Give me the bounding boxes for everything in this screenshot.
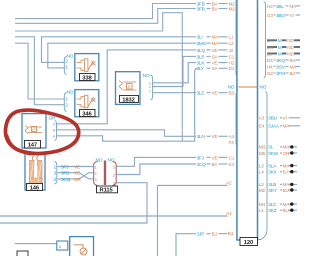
wire 3MG row from 338 pin1 bbox=[48, 43, 196, 68]
component 147 sensor bbox=[22, 114, 46, 148]
svg-text:1: 1 bbox=[113, 165, 115, 169]
svg-text:3LB: 3LB bbox=[268, 182, 276, 188]
svg-text:R115: R115 bbox=[100, 188, 114, 194]
label 146 bbox=[27, 184, 43, 192]
svg-text:3LY: 3LY bbox=[197, 66, 205, 72]
label 147 bbox=[25, 141, 41, 149]
svg-text:BJ: BJ bbox=[212, 232, 218, 238]
svg-text:3JP: 3JP bbox=[197, 232, 205, 238]
bottom pump component bbox=[70, 237, 94, 256]
svg-text:NO: NO bbox=[108, 158, 115, 164]
svg-text:C1: C1 bbox=[229, 54, 235, 60]
svg-text:M2: M2 bbox=[259, 188, 266, 194]
svg-text:MA: MA bbox=[283, 202, 291, 208]
svg-text:VI: VI bbox=[283, 116, 287, 122]
wire bottom-left to pump box bbox=[15, 243, 57, 245]
svg-text:L1: L1 bbox=[259, 208, 264, 214]
wire line5 to 346 pin1 bbox=[15, 43, 65, 99]
svg-text:L2: L2 bbox=[259, 182, 264, 188]
svg-text:VE: VE bbox=[212, 155, 218, 161]
svg-text:L4: L4 bbox=[267, 38, 272, 44]
svg-text:3LQ: 3LQ bbox=[197, 48, 206, 54]
label 338 bbox=[80, 74, 96, 82]
svg-text:A2: A2 bbox=[226, 181, 232, 187]
wire 3LI row from 338 pin2 bbox=[42, 37, 197, 63]
svg-text:3CQ: 3CQ bbox=[197, 162, 207, 168]
svg-text:3LP: 3LP bbox=[197, 54, 205, 60]
wire G2 3FM-BJ bbox=[274, 72, 276, 74]
wire 3LP row from 1832 bbox=[153, 56, 196, 86]
svg-text:NO: NO bbox=[260, 84, 267, 90]
svg-text:L3: L3 bbox=[259, 163, 264, 169]
wire H3 3BL-NA bbox=[274, 5, 276, 7]
svg-text:VE: VE bbox=[212, 48, 218, 54]
svg-text:BU: BU bbox=[283, 188, 290, 194]
wire 3LQ row from 147 pin C bbox=[57, 50, 196, 124]
svg-text:H3: H3 bbox=[267, 4, 273, 10]
svg-text:M2: M2 bbox=[229, 6, 236, 12]
svg-text:NO: NO bbox=[228, 84, 235, 90]
component 338 relay bbox=[75, 54, 99, 81]
svg-text:3BU: 3BU bbox=[268, 116, 277, 122]
svg-text:3LZ: 3LZ bbox=[197, 91, 205, 97]
svg-text:M: M bbox=[278, 45, 282, 51]
internal link line in 120 bbox=[238, 86, 256, 88]
svg-text:346: 346 bbox=[82, 111, 92, 117]
bracket rail left of 120 upper bbox=[236, 0, 238, 78]
svg-text:3FB: 3FB bbox=[197, 6, 205, 12]
wire M3 3L-MA bbox=[266, 146, 269, 148]
svg-text:3GV: 3GV bbox=[276, 64, 286, 70]
svg-text:3: 3 bbox=[95, 178, 97, 182]
connector bracket of 1832 bbox=[151, 75, 153, 100]
svg-text:A1: A1 bbox=[226, 211, 232, 217]
svg-text:A3: A3 bbox=[259, 116, 265, 122]
label box bottom-left (cut) bbox=[17, 251, 28, 256]
svg-text:3KZ: 3KZ bbox=[268, 208, 276, 214]
svg-text:146: 146 bbox=[30, 185, 40, 191]
wire line4 to 346 pin2 bbox=[15, 37, 65, 105]
svg-text:2: 2 bbox=[95, 172, 97, 176]
wire 3FJ from 146 pin1 to R115 bbox=[58, 166, 94, 168]
svg-text:VE: VE bbox=[212, 61, 218, 67]
svg-text:338: 338 bbox=[82, 75, 92, 81]
wire 3LZ row from 1832 bbox=[153, 92, 196, 94]
component 1832 pressure sensor bbox=[116, 72, 141, 105]
svg-text:H4: H4 bbox=[267, 64, 273, 70]
connector bracket of 338 bbox=[64, 57, 66, 75]
svg-text:VE: VE bbox=[74, 171, 80, 177]
svg-text:J2: J2 bbox=[229, 48, 234, 54]
svg-text:D3: D3 bbox=[267, 58, 273, 64]
svg-text:M: M bbox=[278, 51, 282, 57]
wire 3CQ from 146 pin2, crossing bbox=[58, 173, 94, 179]
wire H4 3GV-MA bbox=[274, 66, 276, 68]
wire A2 row and down bbox=[158, 185, 228, 256]
svg-text:MA: MA bbox=[283, 163, 291, 169]
wire E4 3JAA-MA bbox=[266, 125, 269, 127]
svg-text:E4: E4 bbox=[259, 124, 265, 130]
svg-text:VI: VI bbox=[290, 13, 294, 19]
svg-text:M5: M5 bbox=[259, 151, 266, 157]
svg-text:A: A bbox=[53, 133, 56, 138]
connector R115 bbox=[94, 161, 117, 186]
wire A1 long bottom line bbox=[0, 215, 228, 217]
svg-text:B4: B4 bbox=[228, 231, 234, 237]
svg-text:A4: A4 bbox=[229, 134, 235, 140]
svg-text:2: 2 bbox=[113, 173, 115, 177]
svg-text:3KW: 3KW bbox=[268, 151, 278, 157]
svg-text:3FJ: 3FJ bbox=[61, 164, 69, 170]
svg-text:3BO: 3BO bbox=[276, 13, 285, 19]
wire A3 3BU-VI bbox=[266, 117, 269, 119]
svg-text:ND: ND bbox=[287, 45, 294, 51]
svg-text:B: B bbox=[53, 127, 56, 132]
svg-text:3BL: 3BL bbox=[276, 4, 284, 10]
svg-text:3JAA: 3JAA bbox=[268, 124, 280, 130]
wire L3 ground M-ND bbox=[267, 53, 277, 55]
svg-text:1: 1 bbox=[95, 165, 97, 169]
wire L2 3LB-MA bbox=[266, 183, 269, 185]
svg-text:GR: GR bbox=[283, 151, 290, 157]
svg-text:3L: 3L bbox=[268, 145, 273, 151]
label 1832 bbox=[120, 96, 139, 104]
svg-text:3CQ: 3CQ bbox=[61, 177, 71, 183]
wire M4 ground M-ND bbox=[267, 46, 277, 48]
svg-text:3FM: 3FM bbox=[276, 71, 285, 77]
sub connector 1 of pump bbox=[57, 241, 68, 250]
svg-text:3FB: 3FB bbox=[61, 171, 69, 177]
svg-text:M3: M3 bbox=[259, 145, 266, 151]
svg-text:M4: M4 bbox=[259, 202, 266, 208]
svg-text:C: C bbox=[53, 121, 56, 126]
component 346 relay bbox=[75, 90, 99, 117]
svg-text:VE: VE bbox=[74, 164, 80, 170]
svg-text:3LA: 3LA bbox=[268, 163, 277, 169]
svg-text:MA: MA bbox=[283, 145, 291, 151]
svg-text:147: 147 bbox=[28, 143, 37, 149]
svg-text:L3: L3 bbox=[267, 51, 272, 57]
wire 3LK row from 1832 bbox=[153, 63, 196, 83]
svg-text:ND: ND bbox=[287, 38, 294, 44]
svg-text:NO: NO bbox=[143, 73, 150, 79]
svg-text:K4: K4 bbox=[229, 162, 235, 168]
svg-text:L4: L4 bbox=[259, 170, 264, 176]
svg-text:P: P bbox=[128, 84, 131, 89]
svg-text:B3: B3 bbox=[229, 91, 235, 97]
svg-text:L2: L2 bbox=[229, 41, 234, 47]
svg-text:3FJ: 3FJ bbox=[197, 155, 205, 161]
wire 3FB from 146 pin3, crossing bbox=[58, 173, 94, 179]
wire 3FB-BA row 2 from line2 bbox=[15, 9, 196, 24]
svg-text:3LK: 3LK bbox=[197, 61, 206, 67]
svg-text:NO: NO bbox=[67, 90, 74, 96]
svg-text:G3: G3 bbox=[267, 13, 273, 19]
wire G3 3BO-VI bbox=[274, 14, 276, 16]
svg-text:OR: OR bbox=[74, 177, 81, 183]
svg-text:3: 3 bbox=[113, 182, 115, 186]
wire M5 3KW-GR bbox=[266, 152, 269, 154]
bracket rail right of 120 lower bbox=[259, 92, 268, 240]
svg-text:ND: ND bbox=[287, 51, 294, 57]
wire 3FB-BA row 1 from line1 bbox=[15, 4, 196, 19]
connector bracket of 146 bbox=[55, 162, 57, 185]
svg-text:MA: MA bbox=[212, 35, 220, 41]
svg-text:F4: F4 bbox=[229, 140, 235, 146]
label 346 bbox=[80, 110, 96, 118]
component 146 glow plug bbox=[25, 154, 45, 191]
svg-text:MA: MA bbox=[283, 124, 291, 130]
svg-text:120: 120 bbox=[244, 240, 253, 246]
svg-text:NO: NO bbox=[96, 158, 103, 164]
wire L3 3LA-MA bbox=[266, 165, 269, 167]
wire 3CQ row from R115 bbox=[117, 164, 197, 175]
svg-text:BJ: BJ bbox=[290, 71, 296, 77]
connector bracket of 147 bbox=[55, 121, 57, 141]
svg-text:H2: H2 bbox=[229, 61, 235, 67]
svg-text:3KY: 3KY bbox=[268, 188, 277, 194]
svg-text:3LC: 3LC bbox=[268, 202, 277, 208]
svg-text:VE: VE bbox=[212, 134, 218, 140]
wire M2 3KY-BU bbox=[266, 189, 269, 191]
svg-text:G2: G2 bbox=[267, 71, 273, 77]
svg-text:NO: NO bbox=[67, 54, 74, 60]
svg-text:VE: VE bbox=[212, 91, 218, 97]
svg-text:C1: C1 bbox=[229, 155, 235, 161]
svg-text:3LN: 3LN bbox=[197, 134, 206, 140]
svg-text:3KX: 3KX bbox=[268, 170, 277, 176]
svg-text:3LI: 3LI bbox=[197, 35, 203, 41]
wire L1 3KZ-BU bbox=[266, 209, 269, 211]
svg-text:P: P bbox=[32, 127, 35, 132]
svg-text:MA: MA bbox=[290, 64, 298, 70]
svg-text:NA: NA bbox=[290, 4, 297, 10]
svg-text:3KQ: 3KQ bbox=[276, 58, 285, 64]
svg-text:1832: 1832 bbox=[122, 97, 135, 103]
wire line3 to long vertical bbox=[15, 13, 182, 142]
bracket rail left of 120 lower bbox=[236, 91, 238, 147]
wire 3JP row bbox=[176, 234, 196, 256]
svg-text:D1: D1 bbox=[229, 66, 235, 72]
wire 3FJ row from R115 bbox=[117, 157, 197, 166]
svg-text:L1: L1 bbox=[229, 35, 234, 41]
label 120 bbox=[240, 238, 258, 247]
wire L4 ground M-ND bbox=[267, 39, 277, 41]
label R115 bbox=[97, 186, 118, 194]
wire 3LY row bbox=[195, 68, 198, 141]
svg-text:MA: MA bbox=[212, 41, 220, 47]
svg-text:M4: M4 bbox=[267, 45, 274, 51]
red highlight ellipse around 147 bbox=[5, 110, 78, 154]
wire 147 pin A to long vertical bbox=[57, 136, 195, 141]
wire 3LN row from 147 pin B bbox=[57, 130, 196, 137]
wire L4 3KX-BJ bbox=[266, 171, 269, 173]
bracket rail right of 120 upper bbox=[264, 2, 266, 79]
svg-text:MA: MA bbox=[283, 182, 291, 188]
wire R115 pin3 down to bottom line2 bbox=[0, 183, 147, 223]
svg-text:BJ: BJ bbox=[283, 170, 289, 176]
wire D3 3KQ-BA bbox=[274, 59, 276, 61]
component box 120 bbox=[237, 0, 258, 240]
svg-text:3MG: 3MG bbox=[197, 41, 207, 47]
svg-text:M: M bbox=[278, 38, 282, 44]
connector bracket of 346 bbox=[64, 93, 66, 112]
wire M4 3LC-MA bbox=[266, 203, 269, 205]
svg-text:BU: BU bbox=[283, 208, 290, 214]
